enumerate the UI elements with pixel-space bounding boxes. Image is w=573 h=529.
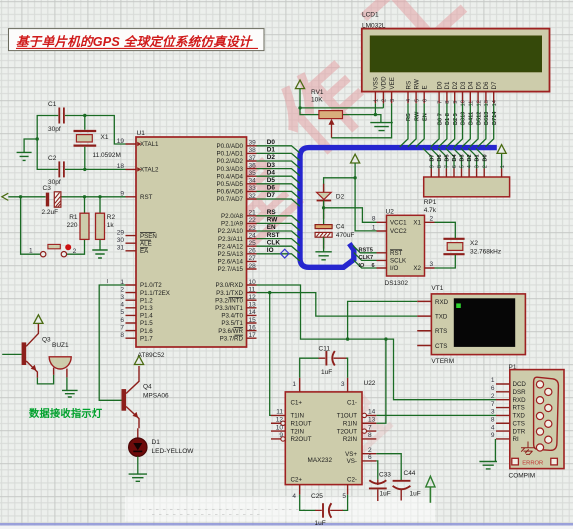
svg-text:10: 10 [276,424,284,431]
svg-text:3: 3 [341,381,345,388]
svg-text:3: 3 [120,294,124,301]
svg-text:RST: RST [267,232,280,239]
svg-text:1: 1 [500,165,506,168]
U2 pin numbers [372,216,434,269]
svg-text:Q3: Q3 [42,337,51,344]
wire D2 to C4 and VCC1 branch [324,201,377,225]
svg-text:CLK7: CLK7 [359,255,374,261]
svg-text:TXD: TXD [435,314,448,321]
P1 DB9 connector shape [534,377,559,451]
svg-text:29: 29 [117,229,125,236]
svg-text:1k: 1k [107,222,115,229]
svg-text:XTAL2: XTAL2 [140,167,159,174]
svg-text:U1: U1 [137,130,146,137]
svg-text:220: 220 [67,222,78,229]
svg-text:7: 7 [437,101,443,104]
svg-text:P1.4: P1.4 [140,313,153,320]
svg-text:2: 2 [491,393,495,400]
chip U2 DS1302 [385,208,425,287]
virtual terminal VT1 body [431,294,525,355]
svg-text:VS+: VS+ [345,451,357,458]
svg-text:4: 4 [292,493,296,500]
svg-text:470uF: 470uF [336,232,354,239]
wire MCU RXD net (P3.0 to VT1/MAX232/COMPIM) [257,285,497,423]
svg-text:TXD: TXD [513,413,526,420]
svg-text:C1-: C1- [347,399,357,406]
ground (BUZ1) [62,390,78,397]
svg-text:CTS: CTS [435,343,447,350]
svg-text:C11: C11 [319,346,331,353]
wire LCD RS/RW/E bus entries [400,103,425,146]
svg-text:26: 26 [249,248,257,255]
VT1 screen [454,298,515,347]
svg-text:P3.4/T0: P3.4/T0 [221,313,243,320]
svg-text:D3: D3 [460,154,466,161]
push button [29,244,77,257]
capacitor C11 [300,346,348,378]
svg-text:D7: D7 [429,154,435,161]
svg-text:P2.0/A8: P2.0/A8 [221,213,244,220]
svg-text:C1: C1 [48,101,57,108]
svg-text:8: 8 [491,416,495,423]
svg-text:D6: D6 [437,154,443,161]
svg-text:基于单片机的GPS 全球定位系统仿真设计: 基于单片机的GPS 全球定位系统仿真设计 [16,34,254,49]
svg-text:P1.7: P1.7 [140,335,153,342]
svg-text:D1: D1 [475,154,481,161]
ground (C4) [315,252,331,260]
svg-text:P2.1/A9: P2.1/A9 [221,221,244,228]
wire RV1 right to ground [343,115,381,123]
capacitor C25 [300,493,348,527]
wire C1/C2 left side with ground branch [24,116,58,170]
svg-text:D2 9: D2 9 [453,113,459,125]
svg-text:RTS: RTS [513,405,525,412]
svg-text:P1.6: P1.6 [140,328,153,335]
svg-text:C2+: C2+ [291,477,303,484]
svg-text:38: 38 [249,147,257,154]
svg-text:9: 9 [491,432,495,439]
U22 inverter bubbles (T1OUT,T2OUT) [362,413,366,417]
U22 pin names [291,399,358,483]
LCD1 labels [362,12,386,30]
svg-text:D2: D2 [267,154,276,161]
svg-text:1uF: 1uF [321,369,332,376]
svg-text:IO: IO [359,263,366,269]
svg-text:6: 6 [372,263,375,269]
svg-text:BUZ1: BUZ1 [52,342,69,349]
svg-text:EN: EN [267,224,276,231]
svg-text:9: 9 [279,432,283,439]
svg-text:5: 5 [414,99,420,102]
svg-text:2: 2 [430,216,434,223]
svg-text:C44: C44 [404,470,416,477]
svg-text:8: 8 [445,101,451,104]
svg-text:10K: 10K [311,96,323,103]
svg-text:E: E [422,85,429,89]
chip U1 AT89C52 body [136,130,247,359]
node D2/C4/VCC1 junction [322,206,325,209]
svg-text:2: 2 [382,99,388,102]
ground (XTAL cluster) [17,152,32,160]
svg-text:D1: D1 [444,81,451,89]
svg-text:1uF: 1uF [315,520,326,527]
svg-text:D7: D7 [267,192,276,199]
svg-text:C4: C4 [336,224,345,231]
svg-text:P2.6/A14: P2.6/A14 [218,259,244,266]
svg-text:D0: D0 [436,81,443,89]
VT1 pin stubs [417,301,431,345]
resistor pack RP1 [424,177,510,214]
RP1 pin numbers rotated [429,165,505,168]
svg-text:VCC1: VCC1 [390,220,407,227]
VT1 pin names [435,299,449,350]
power arrow (U2 +5V) [351,154,360,163]
svg-text:3: 3 [491,409,495,416]
svg-text:R1: R1 [69,214,78,221]
svg-text:RW: RW [414,111,420,121]
svg-text:ALE: ALE [140,240,152,247]
P1 pin names [513,381,527,443]
svg-text:11: 11 [276,409,283,416]
svg-text:Q4: Q4 [143,384,152,391]
svg-text:RST: RST [140,194,153,201]
wire BUZ1 to ground [66,377,68,390]
svg-text:DSR: DSR [513,389,527,396]
svg-text:T2OUT: T2OUT [337,428,358,435]
svg-text:D4: D4 [267,169,276,176]
node XTAL2/X1 junction [83,168,86,171]
svg-text:6: 6 [120,317,124,324]
svg-text:PSEN: PSEN [140,233,157,240]
svg-text:2: 2 [368,447,372,454]
svg-text:19: 19 [117,138,125,145]
svg-text:4: 4 [120,302,124,309]
svg-text:VT1: VT1 [431,285,443,292]
ground (D1) [129,474,147,481]
svg-text:D3: D3 [460,81,467,89]
svg-text:SCLK: SCLK [390,258,407,265]
svg-text:P1.1/T2EX: P1.1/T2EX [140,290,170,297]
buzzer BUZ1 [49,342,71,378]
svg-text:RTS: RTS [435,328,447,335]
svg-text:D0 7: D0 7 [437,113,443,125]
svg-text:R2: R2 [107,214,116,221]
svg-text:8: 8 [372,216,376,223]
svg-text:P1.2: P1.2 [140,297,153,304]
svg-text:16: 16 [249,324,257,331]
svg-text:RXD: RXD [435,299,449,306]
wire P1 RI to ground [494,439,496,461]
node TXD net junction [268,291,271,294]
wire +5V branch to D2 cathode [324,178,356,192]
svg-text:1uF: 1uF [380,490,391,497]
svg-text:10: 10 [461,100,467,106]
svg-text:6: 6 [452,165,458,168]
connector P1 COMPIM body [510,370,564,469]
wire RST net [8,197,125,254]
svg-text:DCD: DCD [513,381,527,388]
svg-text:RS: RS [405,81,412,90]
wire P1.0 to Q4 base [99,285,125,400]
svg-text:14: 14 [368,409,376,416]
svg-text:35: 35 [249,170,257,177]
svg-text:R2IN: R2IN [343,436,357,443]
net labels D0-D7 (MCU side) [267,139,276,199]
svg-text:36: 36 [249,162,257,169]
svg-text:11.0592M: 11.0592M [93,152,121,159]
svg-text:3: 3 [390,99,396,102]
svg-text:P0.4/AD4: P0.4/AD4 [217,173,244,180]
capacitor C2 [48,155,64,186]
svg-text:EN: EN [422,113,428,121]
U2 pin stubs [377,222,435,268]
svg-text:P3.3/INT1: P3.3/INT1 [215,305,243,312]
svg-text:P3.2/INT0: P3.2/INT0 [215,297,243,304]
svg-text:11: 11 [249,286,256,293]
svg-text:I/O: I/O [390,265,398,272]
svg-text:VTERM: VTERM [431,358,454,365]
svg-text:P3.6/WR: P3.6/WR [218,328,243,335]
svg-text:33: 33 [249,185,257,192]
svg-text:X2: X2 [470,240,478,247]
capacitor C44 [393,470,421,500]
svg-text:D5: D5 [445,154,451,161]
power arrow (RV1 +5V) [295,80,304,89]
svg-text:9: 9 [429,165,435,168]
wire T1OUT to COMPIM TXD [376,414,496,416]
svg-text:D613: D613 [484,112,490,125]
svg-text:P3.1/TXD: P3.1/TXD [216,290,243,297]
U22 bottom pin stubs [300,485,348,495]
svg-text:RI: RI [513,436,519,443]
P1 pin numbers [491,377,495,439]
svg-text:D6: D6 [483,81,490,89]
svg-text:4: 4 [491,424,495,431]
U1 right pin names [215,143,243,342]
node XTAL1/X1 junction [83,114,86,117]
power arrow (RP1 +5V) [497,145,506,154]
resistor R2 (1k) [96,213,116,239]
svg-text:1: 1 [374,99,380,102]
svg-text:P2.5/A13: P2.5/A13 [218,251,244,258]
wire U2 X1/X2 to crystal [435,222,456,268]
svg-text:8: 8 [120,332,124,339]
svg-text:D7: D7 [491,81,498,89]
svg-text:RXD: RXD [513,397,527,404]
svg-text:P2.4/A12: P2.4/A12 [218,243,244,250]
svg-text:P3.7/RD: P3.7/RD [220,335,244,342]
wire Q3 base [2,353,21,355]
svg-text:C25: C25 [311,493,323,500]
ground (P1 RI) [479,462,497,469]
wire XTAL1 net (C1 right to pin 19) [65,116,126,145]
svg-text:2: 2 [482,165,488,168]
crystal X1 [74,131,121,159]
svg-text:P2.2/A10: P2.2/A10 [218,228,244,235]
U22 right pin stubs [362,415,376,461]
U22 left pin stubs [271,415,285,439]
svg-text:D5: D5 [475,81,482,89]
transistor Q3 [22,323,51,377]
wire +5V to U2 VCC2 [355,163,376,231]
svg-text:D0: D0 [482,154,488,161]
svg-text:6: 6 [491,385,495,392]
svg-text:13: 13 [368,417,376,424]
svg-text:MAX232: MAX232 [308,457,333,464]
svg-text:IO: IO [267,247,274,254]
svg-text:DS1302: DS1302 [385,280,409,287]
LCD pin numbers (rotated) [374,99,498,107]
svg-text:R1IN: R1IN [343,421,357,428]
svg-text:XTAL1: XTAL1 [140,141,159,148]
svg-text:7: 7 [368,424,372,431]
svg-text:D1: D1 [267,147,276,154]
svg-text:12: 12 [276,417,284,424]
diode D2 [317,184,345,249]
svg-text:17: 17 [249,332,257,339]
svg-text:MPSA06: MPSA06 [143,392,169,399]
svg-text:13: 13 [249,302,257,309]
svg-text:R2OUT: R2OUT [291,436,312,443]
svg-text:D310: D310 [461,112,467,125]
svg-text:C33: C33 [379,472,391,479]
svg-text:VEE: VEE [389,77,396,89]
svg-text:P0.3/AD3: P0.3/AD3 [217,166,244,173]
svg-text:13: 13 [484,100,490,106]
bus (blue data bus) [300,148,497,268]
U1 right pin numbers [249,140,257,339]
svg-text:1uF: 1uF [410,490,421,497]
svg-text:X2: X2 [413,265,421,272]
svg-text:D0: D0 [267,139,276,146]
svg-text:LCD1: LCD1 [362,12,379,19]
LCD screen [370,36,541,72]
svg-text:1: 1 [29,247,33,254]
svg-text:RP1: RP1 [424,199,437,206]
net labels RST5 CLK7 IO6 [359,248,375,269]
svg-text:P3.5/T1: P3.5/T1 [221,320,243,327]
crystal X2 [443,239,501,256]
svg-text:31: 31 [117,245,125,252]
net labels RS RW EN RST CLK IO (MCU side) [267,209,281,254]
svg-text:数据接收指示灯: 数据接收指示灯 [29,407,102,420]
svg-text:C2: C2 [48,155,57,162]
svg-text:5: 5 [342,493,346,500]
svg-text:T1IN: T1IN [291,413,304,420]
chip U22 MAX232 [285,380,376,485]
svg-text:10: 10 [249,279,257,286]
svg-text:C3: C3 [43,185,52,192]
wire LCD VEE to RV1 wiper [332,103,392,137]
svg-text:VCC2: VCC2 [390,228,407,235]
ground (RV1/LCD) [370,123,393,131]
svg-text:1: 1 [292,381,296,388]
svg-text:AT89C52: AT89C52 [138,352,165,359]
capacitor C1 [48,101,64,133]
svg-text:VDD: VDD [381,76,388,90]
svg-text:1: 1 [491,377,495,384]
svg-text:3: 3 [430,261,434,268]
svg-text:ERROR: ERROR [522,461,543,467]
svg-text:39: 39 [249,140,257,147]
P1 pin stubs [496,384,510,439]
U1 left pin stubs [126,144,137,338]
svg-text:C2-: C2- [347,477,357,484]
svg-text:5: 5 [120,309,124,316]
svg-text:P2.7/A15: P2.7/A15 [218,266,244,273]
svg-text:P2.3/A11: P2.3/A11 [218,236,244,243]
node RST junctions [19,195,22,198]
svg-text:30: 30 [117,237,125,244]
svg-text:RW: RW [413,79,420,89]
U1 left pin numbers [117,138,125,339]
svg-text:P0.5/AD5: P0.5/AD5 [217,181,244,188]
svg-text:C1+: C1+ [291,399,303,406]
svg-text:30pf: 30pf [48,126,61,133]
RP1 pin stubs [431,169,501,178]
svg-text:P0.0/AD0: P0.0/AD0 [217,143,244,150]
wire +5V to LCD VDD and RV1 left [300,89,383,115]
node RXD net junctions [346,337,349,340]
svg-text:D714: D714 [492,111,498,125]
LCD pin stubs [375,92,493,104]
LED D1 [129,428,195,456]
svg-text:EA: EA [140,248,149,255]
svg-text:D4: D4 [452,153,458,161]
svg-text:11: 11 [469,101,475,107]
VT1 cursor [456,303,461,308]
wire RP1 common to +5V [501,153,503,168]
svg-text:RST: RST [390,250,403,257]
svg-text:12: 12 [476,100,482,106]
wire LCD VSS to ground [374,103,376,114]
svg-text:RST5: RST5 [359,248,373,254]
svg-text:7: 7 [120,324,124,331]
svg-text:X1: X1 [101,134,109,141]
wire C4 to ground [323,237,325,251]
P1 ERROR indicators [512,458,558,466]
power arrow (bottom +5V) [426,476,435,503]
svg-text:4.7k: 4.7k [424,207,437,214]
svg-text:2: 2 [120,286,124,293]
U22 left pin numbers [276,409,284,440]
ground (P1 shell) [521,442,535,455]
svg-text:6: 6 [422,99,428,102]
svg-text:VSS: VSS [373,77,380,89]
svg-text:P1.3: P1.3 [140,305,153,312]
svg-text:7: 7 [445,165,451,168]
svg-text:14: 14 [249,309,257,316]
terminal arrow (RST input, left edge) [2,193,9,200]
wire bus to U2 RST/SCLK/IO [353,245,377,268]
svg-text:15: 15 [249,317,257,324]
svg-text:D1: D1 [152,439,161,446]
U1 left pin names [140,141,170,342]
svg-text:3: 3 [475,165,481,168]
wire P0.0-P0.7 bus entries [257,146,300,206]
svg-text:27: 27 [249,255,257,262]
svg-text:24: 24 [249,232,257,239]
node VSS junction [374,113,377,116]
svg-text:1: 1 [372,224,376,231]
capacitor C33 [369,472,391,501]
svg-text:P1.0/T2: P1.0/T2 [140,282,162,289]
svg-text:32: 32 [249,193,257,200]
svg-text:D512: D512 [476,112,482,125]
RP1 net labels rotated (D7..D0) [429,153,488,161]
VT1 labels [431,285,454,365]
power arrow (Q3) [34,315,43,324]
